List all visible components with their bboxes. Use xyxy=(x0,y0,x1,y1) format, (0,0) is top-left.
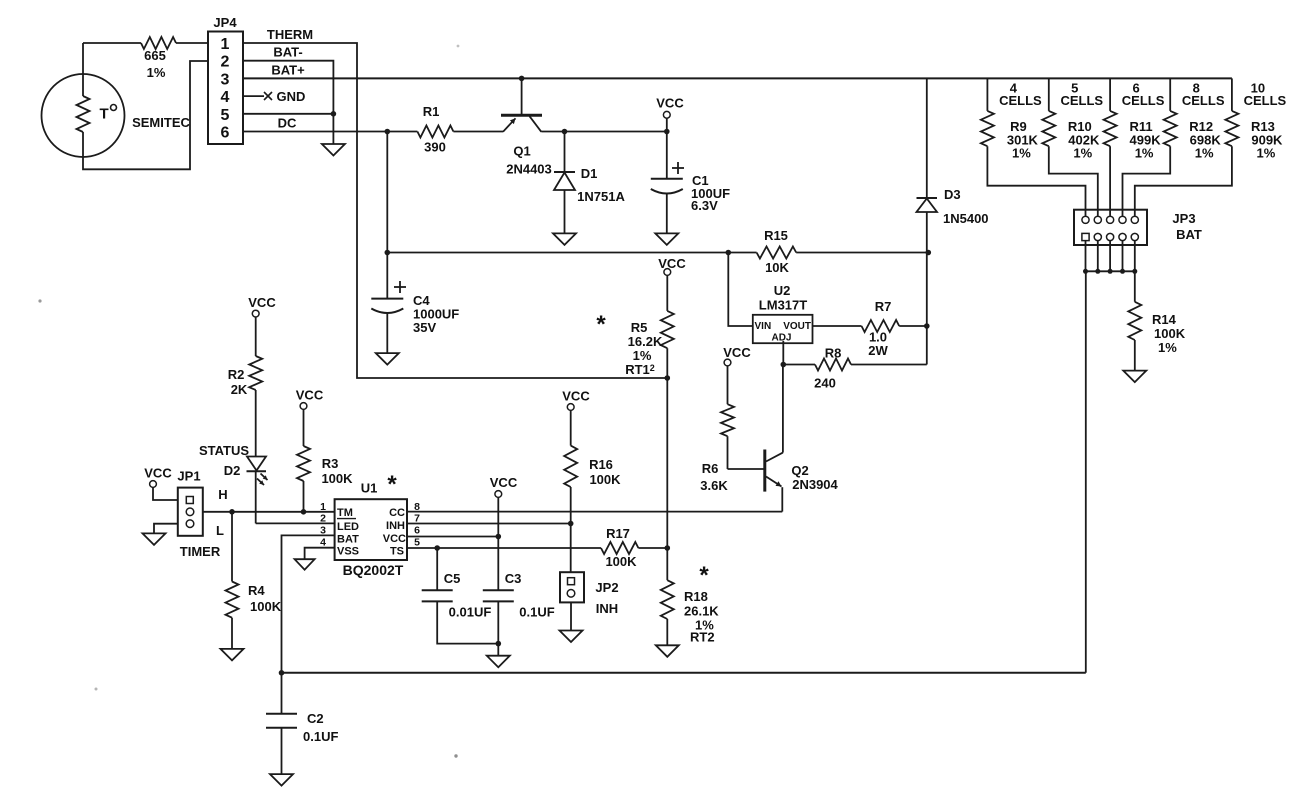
connector JP4 xyxy=(208,15,243,144)
svg-text:R6: R6 xyxy=(702,461,719,476)
svg-text:6.3V: 6.3V xyxy=(691,198,718,213)
resistor 665 1% xyxy=(141,37,176,80)
wire U2 ADJ down xyxy=(782,341,784,365)
diode D1 1N751A xyxy=(554,132,625,234)
svg-text:Q1: Q1 xyxy=(513,144,530,159)
svg-text:TS: TS xyxy=(390,546,404,558)
ground C2 xyxy=(270,774,293,786)
ground R14 xyxy=(1123,371,1146,383)
wire Q1 collector to VCC node xyxy=(541,131,667,133)
node VCC/C1 junction xyxy=(664,129,670,135)
svg-text:STATUS: STATUS xyxy=(199,443,249,458)
resistor R10 402K (5 cells) xyxy=(1042,78,1103,216)
JP4 pin 5 number xyxy=(221,107,230,124)
svg-text:THERM: THERM xyxy=(267,27,313,42)
svg-text:L: L xyxy=(216,523,224,538)
wire bus to U2 VIN xyxy=(728,253,753,327)
U1 pin 5 number xyxy=(414,537,420,549)
wire DC (JP4.6) to R1 xyxy=(243,131,417,133)
svg-text:2N3904: 2N3904 xyxy=(792,477,838,492)
capacitor C3 0.1UF xyxy=(483,537,555,656)
wire JP3 common down to bottom bus xyxy=(1085,271,1087,673)
power VCC at R16 xyxy=(562,389,590,446)
svg-text:R8: R8 xyxy=(825,346,842,361)
wire thermistor bottom to JP4 pin 2 xyxy=(83,61,208,169)
svg-text:100K: 100K xyxy=(1154,326,1186,341)
svg-text:1%: 1% xyxy=(1195,146,1214,161)
svg-text:3.6K: 3.6K xyxy=(700,478,728,493)
capacitor C4 1000UF 35V xyxy=(371,281,459,353)
resistor R18 26.1K 1% RT2 xyxy=(661,548,720,645)
svg-text:VCC: VCC xyxy=(144,466,172,481)
power VCC at R6 xyxy=(723,345,751,404)
diode D3 1N5400 xyxy=(917,78,989,364)
svg-text:CC: CC xyxy=(389,507,405,519)
wire JP1 to U1 TM pin xyxy=(203,511,335,513)
wire U1 pin4 VSS xyxy=(305,548,335,560)
svg-text:1%: 1% xyxy=(1257,146,1276,161)
capacitor C5 0.01UF xyxy=(422,548,499,644)
svg-text:JP4: JP4 xyxy=(213,15,237,30)
svg-text:R7: R7 xyxy=(875,299,892,314)
resistor R4 100K xyxy=(226,512,282,649)
svg-text:JP2: JP2 xyxy=(595,580,618,595)
wire U2 VOUT to R7 xyxy=(813,325,862,327)
svg-text:LM317T: LM317T xyxy=(759,298,807,313)
svg-text:4: 4 xyxy=(320,537,326,549)
svg-text:JP3: JP3 xyxy=(1172,211,1195,226)
U1 pin 8 number xyxy=(414,501,420,513)
svg-text:GND: GND xyxy=(277,89,306,104)
svg-text:VIN: VIN xyxy=(755,321,772,332)
resistor R12 698K (8 cells) xyxy=(1123,78,1225,216)
node D3/R15 junction xyxy=(926,250,932,256)
svg-text:ADJ: ADJ xyxy=(771,333,791,344)
regulator U2 LM317T xyxy=(753,283,813,344)
svg-text:R17: R17 xyxy=(606,526,630,541)
svg-text:VSS: VSS xyxy=(337,546,359,558)
node R4 tap xyxy=(229,509,235,515)
node R7/D3 vertical junction xyxy=(924,323,930,329)
ground VSS xyxy=(295,559,315,570)
svg-text:1%: 1% xyxy=(1158,340,1177,355)
svg-text:1%: 1% xyxy=(633,348,652,363)
svg-text:2W: 2W xyxy=(868,343,888,358)
ground C4 xyxy=(376,353,399,365)
wire U1 pin7 INH xyxy=(407,523,571,525)
ground JP1 xyxy=(143,533,166,545)
wire U1 pin2 LED xyxy=(256,522,335,524)
svg-text:TM: TM xyxy=(337,507,353,519)
resistor R15 10K xyxy=(757,228,797,275)
svg-text:R18: R18 xyxy=(684,589,708,604)
label H xyxy=(218,487,227,502)
svg-text:6: 6 xyxy=(414,525,420,537)
svg-text:1%: 1% xyxy=(147,65,166,80)
svg-text:100K: 100K xyxy=(250,599,282,614)
svg-text:VCC: VCC xyxy=(296,388,324,403)
U1 pin 2 number xyxy=(320,513,326,525)
resistor R11 499K (6 cells) xyxy=(1104,78,1165,216)
U1 pin 4 number xyxy=(320,537,326,549)
svg-text:DC: DC xyxy=(278,116,297,131)
node DC/C4 junction xyxy=(385,129,391,135)
svg-text:LED: LED xyxy=(337,521,359,533)
resistor R13 909K (10 cells) xyxy=(1135,78,1287,216)
node R17/R18/THERM junction xyxy=(665,545,671,551)
power VCC at R5 xyxy=(658,256,686,311)
asterisk near U1 xyxy=(387,471,397,498)
svg-text:D1: D1 xyxy=(581,166,598,181)
svg-text:*: * xyxy=(699,562,709,589)
resistor R7 1.0 2W xyxy=(862,299,927,358)
svg-text:240: 240 xyxy=(814,376,836,391)
ground C1 xyxy=(655,233,678,245)
JP4 pin 6 number xyxy=(221,125,230,142)
wire U1 pin8 CC to Q2 emitter xyxy=(407,511,782,513)
svg-text:0.01UF: 0.01UF xyxy=(449,605,492,620)
asterisk near R18 xyxy=(699,562,709,589)
label THERM xyxy=(267,27,313,42)
resistor R14 100K 1% xyxy=(1128,271,1185,370)
node C5/C3 ground junction xyxy=(496,641,502,647)
ground C3 xyxy=(487,656,510,668)
svg-text:1N5400: 1N5400 xyxy=(943,211,989,226)
label STATUS xyxy=(199,443,249,458)
svg-text:390: 390 xyxy=(424,140,446,155)
wire R6 to Q2 base xyxy=(728,468,765,470)
node R3/TM junction xyxy=(301,509,307,515)
wire JP3 bottom pins to common node xyxy=(1083,241,1137,274)
svg-text:R3: R3 xyxy=(322,456,339,471)
svg-text:C5: C5 xyxy=(444,571,461,586)
svg-text:R14: R14 xyxy=(1152,312,1177,327)
power VCC at C1 xyxy=(656,96,684,132)
node D1 junction xyxy=(562,129,568,135)
svg-text:1%: 1% xyxy=(1012,146,1031,161)
svg-text:BAT: BAT xyxy=(1176,227,1202,242)
wire bottom bus (BAT) xyxy=(282,672,1086,674)
svg-text:C3: C3 xyxy=(505,571,522,586)
wire THERM net (JP4.1 down to node RT1) xyxy=(243,43,667,378)
svg-text:1: 1 xyxy=(320,501,326,513)
wire 665 to JP4 pin 1 xyxy=(176,42,208,44)
svg-text:VCC: VCC xyxy=(383,533,406,545)
resistor R9 301K (4 cells) xyxy=(981,78,1086,216)
svg-text:100K: 100K xyxy=(321,471,353,486)
JP4 pin 1 number xyxy=(221,36,230,53)
label BQ2002T xyxy=(343,562,404,578)
svg-text:10K: 10K xyxy=(765,260,789,275)
JP4 pin4 no-connect GND stub xyxy=(243,89,305,104)
svg-text:1N751A: 1N751A xyxy=(577,189,625,204)
resistor R5 16.2K 1% RT1 xyxy=(625,311,674,378)
label SEMITEC xyxy=(132,115,190,130)
U1 pin 1 number xyxy=(320,501,326,513)
power VCC at U1 xyxy=(490,475,518,537)
wire BAT- (JP4.2) xyxy=(243,61,333,144)
U1 pin 6 number xyxy=(414,525,420,537)
svg-text:*: * xyxy=(387,471,397,498)
svg-text:VCC: VCC xyxy=(490,475,518,490)
transistor Q1 2N4403 xyxy=(501,76,552,177)
JP4 pin 4 number xyxy=(221,89,230,106)
wire D2 to U1 LED pin xyxy=(255,471,257,523)
wire RT1 node down to R17/R18 node xyxy=(666,378,668,548)
svg-text:R5: R5 xyxy=(631,320,648,335)
ground R4 xyxy=(221,649,244,661)
node RT1 (R5 bottom / THERM) xyxy=(665,375,671,381)
power VCC at JP1 xyxy=(144,466,178,501)
svg-text:0.1UF: 0.1UF xyxy=(303,729,338,744)
wire DC junction down to C4 xyxy=(386,132,388,299)
svg-text:CELLS: CELLS xyxy=(1244,93,1287,108)
resistor R16 100K xyxy=(564,446,621,573)
transistor Q2 2N3904 xyxy=(765,365,839,512)
svg-text:1: 1 xyxy=(221,36,230,53)
resistor R3 100K xyxy=(297,446,353,512)
svg-text:5: 5 xyxy=(221,107,230,124)
connector JP3 BAT xyxy=(1074,210,1202,245)
svg-text:6: 6 xyxy=(221,125,230,142)
node INH/R16/JP2 junction xyxy=(568,521,574,527)
node U2 VIN tap xyxy=(726,250,732,256)
svg-text:R4: R4 xyxy=(248,583,265,598)
wire JP4 pin5 to BAT- xyxy=(243,111,336,117)
svg-text:4: 4 xyxy=(221,89,230,106)
connector JP2 INH xyxy=(560,572,619,630)
wire R1 to Q1 emitter xyxy=(453,131,503,133)
JP4 pin 3 number xyxy=(221,71,230,88)
svg-text:BAT+: BAT+ xyxy=(271,63,305,78)
wire JP1 ground xyxy=(154,524,178,534)
connector JP1 xyxy=(177,469,202,536)
svg-text:100K: 100K xyxy=(589,472,621,487)
svg-text:D3: D3 xyxy=(944,187,961,202)
node VCC pin junction xyxy=(496,534,502,540)
node bus/C4 T-junction xyxy=(385,250,391,256)
svg-text:1%: 1% xyxy=(1135,146,1154,161)
svg-text:R16: R16 xyxy=(589,457,613,472)
node ADJ/R8/Q2 junction xyxy=(781,362,787,368)
svg-text:665: 665 xyxy=(144,48,166,63)
svg-text:R15: R15 xyxy=(764,228,788,243)
svg-text:26.1K: 26.1K xyxy=(684,604,719,619)
wire U1 pin3 BAT down to bottom bus xyxy=(282,535,335,672)
svg-text:VCC: VCC xyxy=(656,96,684,111)
svg-text:C2: C2 xyxy=(307,711,324,726)
svg-text:2N4403: 2N4403 xyxy=(506,162,552,177)
label BAT- xyxy=(273,45,302,60)
svg-text:16.2K: 16.2K xyxy=(628,334,663,349)
svg-text:INH: INH xyxy=(596,601,618,616)
resistor R6 3.6K xyxy=(700,404,734,493)
svg-text:U1: U1 xyxy=(361,481,378,496)
resistor R17 100K xyxy=(601,526,667,569)
label DC xyxy=(278,116,297,131)
svg-text:3: 3 xyxy=(221,71,230,88)
svg-text:5: 5 xyxy=(414,537,420,549)
svg-text:T: T xyxy=(100,106,109,123)
node C2 junction xyxy=(279,670,285,676)
resistor R2 2K xyxy=(228,356,263,457)
svg-text:Q2: Q2 xyxy=(791,463,808,478)
svg-text:2K: 2K xyxy=(231,382,248,397)
svg-text:VCC: VCC xyxy=(658,256,686,271)
wire thermistor top to resistor 665 xyxy=(83,43,141,74)
label BAT+ xyxy=(271,63,305,78)
U1 pin 3 number xyxy=(320,525,326,537)
label L xyxy=(216,523,224,538)
wire U1 pin5 TS xyxy=(407,547,601,549)
svg-text:VOUT: VOUT xyxy=(783,321,811,332)
ground D1 xyxy=(553,233,576,245)
ground BAT- xyxy=(322,144,345,156)
capacitor C2 0.1UF xyxy=(266,673,338,774)
resistor R8 240 xyxy=(783,346,927,391)
svg-text:R2: R2 xyxy=(228,367,245,382)
asterisk near R5 xyxy=(596,311,606,338)
IC U1 BQ2002T xyxy=(335,481,407,561)
JP4 pin 2 number xyxy=(221,54,230,71)
capacitor C1 100UF 6.3V xyxy=(651,132,730,234)
svg-text:BQ2002T: BQ2002T xyxy=(343,562,404,578)
svg-text:100K: 100K xyxy=(605,554,637,569)
resistor R1 390 xyxy=(417,104,453,155)
svg-text:INH: INH xyxy=(386,520,405,532)
svg-text:VCC: VCC xyxy=(562,389,590,404)
svg-text:*: * xyxy=(596,311,606,338)
wire BAT+ bus (JP4.3) xyxy=(243,77,1232,79)
wire mid bus xyxy=(387,252,928,254)
svg-text:CELLS: CELLS xyxy=(999,93,1042,108)
thermistor T (SEMITEC) xyxy=(42,74,125,157)
power VCC at R3 xyxy=(296,388,324,447)
wire U1 pin6 VCC xyxy=(407,536,498,538)
svg-text:1%: 1% xyxy=(1073,146,1092,161)
svg-text:D2: D2 xyxy=(224,463,241,478)
ground R18 xyxy=(656,645,679,657)
node C5 tap xyxy=(434,545,440,551)
svg-text:BAT: BAT xyxy=(337,534,359,546)
svg-text:TIMER: TIMER xyxy=(180,544,221,559)
svg-text:VCC: VCC xyxy=(248,295,276,310)
svg-text:R1: R1 xyxy=(423,104,440,119)
svg-text:BAT-: BAT- xyxy=(273,45,302,60)
svg-text:JP1: JP1 xyxy=(177,469,200,484)
LED D2 xyxy=(224,457,268,486)
svg-text:SEMITEC: SEMITEC xyxy=(132,115,190,130)
svg-text:RT2: RT2 xyxy=(690,630,715,645)
svg-text:VCC: VCC xyxy=(723,345,751,360)
svg-text:0.1UF: 0.1UF xyxy=(519,605,554,620)
svg-text:H: H xyxy=(218,487,227,502)
svg-text:CELLS: CELLS xyxy=(1182,93,1225,108)
U1 pin 7 number xyxy=(414,513,420,525)
svg-text:CELLS: CELLS xyxy=(1122,93,1165,108)
svg-text:35V: 35V xyxy=(413,320,436,335)
svg-text:2: 2 xyxy=(221,54,230,71)
svg-text:CELLS: CELLS xyxy=(1060,93,1103,108)
ground JP2 xyxy=(560,631,583,643)
label TIMER xyxy=(180,544,221,559)
svg-text:U2: U2 xyxy=(774,283,791,298)
power VCC at R2 xyxy=(248,295,276,356)
